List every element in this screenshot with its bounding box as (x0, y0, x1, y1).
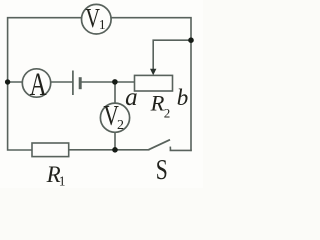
svg-text:S: S (156, 155, 168, 186)
svg-text:R: R (150, 91, 165, 116)
svg-text:b: b (177, 85, 189, 110)
ammeter A (22, 67, 50, 103)
label R1 (46, 162, 66, 189)
svg-text:a: a (125, 84, 138, 111)
node battery-V2 junction (112, 79, 118, 85)
wire V2 top (114, 82, 116, 103)
wire bottom R1 to switch (69, 149, 149, 151)
svg-text:1: 1 (59, 173, 66, 188)
wiper arrowhead (150, 69, 156, 75)
svg-text:2: 2 (117, 118, 124, 133)
switch S blade (149, 140, 170, 150)
node right top (188, 37, 194, 43)
node left (5, 79, 10, 84)
svg-text:A: A (30, 67, 47, 103)
wire wiper horizontal (153, 40, 191, 70)
wire bottom right (170, 149, 191, 151)
label R2 (150, 91, 171, 121)
wire top right (111, 18, 191, 151)
wire left lower (8, 82, 32, 150)
svg-text:1: 1 (99, 17, 106, 32)
rheostat R2 (135, 75, 173, 91)
wire top left (8, 18, 82, 82)
voltmeter V1 (82, 3, 112, 34)
svg-text:2: 2 (164, 106, 171, 121)
resistor R1 (32, 143, 69, 157)
wire V2 bottom (114, 132, 116, 150)
wire (51, 81, 72, 83)
wire middle A to battery (8, 81, 23, 83)
wire battery to R2 (80, 81, 134, 83)
switch right contact tick (169, 147, 171, 151)
voltmeter V2 (100, 100, 129, 133)
node V2 bottom (112, 147, 118, 153)
battery cell (73, 71, 80, 96)
